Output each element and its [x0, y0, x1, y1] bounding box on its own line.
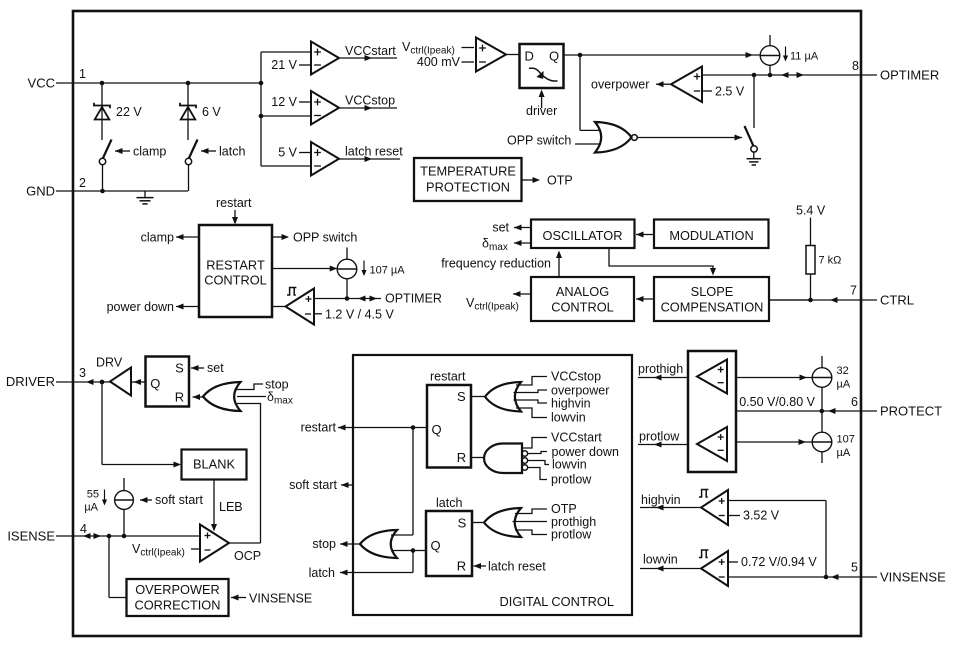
svg-text:highvin: highvin [641, 493, 681, 507]
svg-text:Q: Q [549, 49, 559, 64]
svg-text:S: S [458, 516, 467, 531]
svg-text:OPTIMER: OPTIMER [385, 292, 442, 306]
svg-text:4: 4 [80, 522, 87, 536]
svg-text:11 µA: 11 µA [790, 51, 819, 63]
svg-text:protlow: protlow [551, 473, 592, 487]
svg-text:S: S [175, 361, 184, 376]
svg-text:VCC: VCC [28, 76, 55, 91]
svg-text:soft start: soft start [289, 478, 337, 492]
svg-text:55: 55 [87, 489, 99, 501]
svg-text:Q: Q [430, 538, 440, 553]
svg-text:21 V: 21 V [271, 58, 297, 72]
svg-text:CTRL: CTRL [880, 293, 914, 308]
svg-text:MODULATION: MODULATION [669, 228, 753, 243]
svg-text:0.50 V/0.80 V: 0.50 V/0.80 V [739, 395, 815, 409]
svg-text:12 V: 12 V [271, 95, 297, 109]
svg-text:restart: restart [430, 370, 466, 384]
svg-text:1.2 V / 4.5 V: 1.2 V / 4.5 V [325, 308, 394, 322]
svg-text:5 V: 5 V [278, 146, 297, 160]
svg-text:7 kΩ: 7 kΩ [819, 255, 842, 267]
svg-text:22 V: 22 V [116, 105, 142, 119]
svg-text:BLANK: BLANK [193, 457, 235, 472]
svg-text:R: R [457, 450, 466, 465]
svg-text:ISENSE: ISENSE [7, 529, 55, 544]
svg-text:400 mV: 400 mV [417, 55, 461, 69]
svg-text:PROTECT: PROTECT [880, 404, 942, 419]
svg-text:µA: µA [84, 502, 98, 514]
svg-text:GND: GND [26, 184, 55, 199]
svg-text:LEB: LEB [219, 500, 243, 514]
svg-text:6 V: 6 V [202, 105, 221, 119]
svg-text:clamp: clamp [141, 231, 174, 245]
svg-text:PROTECTION: PROTECTION [426, 180, 510, 195]
svg-text:stop: stop [312, 537, 336, 551]
svg-text:µA: µA [837, 379, 851, 391]
svg-text:power down: power down [107, 300, 174, 314]
svg-text:set: set [492, 221, 509, 235]
svg-text:Vctrl(Ipeak): Vctrl(Ipeak) [466, 296, 519, 313]
svg-text:highvin: highvin [551, 397, 591, 411]
svg-text:frequency reduction: frequency reduction [441, 257, 551, 271]
svg-text:7: 7 [850, 284, 857, 298]
svg-text:SLOPE: SLOPE [691, 284, 734, 299]
svg-text:2: 2 [79, 176, 86, 190]
svg-text:OPP switch: OPP switch [293, 231, 357, 245]
svg-text:0.72 V/0.94 V: 0.72 V/0.94 V [741, 555, 817, 569]
svg-text:107 µA: 107 µA [370, 265, 406, 277]
svg-text:CONTROL: CONTROL [551, 300, 614, 315]
svg-text:lowvin: lowvin [551, 411, 586, 425]
svg-text:3: 3 [79, 366, 86, 380]
svg-text:R: R [175, 390, 184, 405]
svg-text:latch: latch [219, 145, 245, 159]
svg-text:VCCstart: VCCstart [345, 44, 396, 58]
svg-text:TEMPERATURE: TEMPERATURE [420, 164, 516, 179]
svg-text:OCP: OCP [234, 549, 261, 563]
svg-text:VCCstop: VCCstop [345, 94, 395, 108]
svg-text:RESTART: RESTART [206, 258, 265, 273]
svg-text:OPP switch: OPP switch [507, 134, 571, 148]
svg-text:D: D [525, 49, 534, 64]
svg-text:CORRECTION: CORRECTION [134, 598, 220, 613]
svg-text:6: 6 [851, 395, 858, 409]
svg-text:DRV: DRV [96, 356, 123, 370]
svg-text:ANALOG: ANALOG [556, 284, 609, 299]
svg-text:OVERPOWER: OVERPOWER [135, 582, 220, 597]
svg-text:OTP: OTP [547, 174, 573, 188]
svg-text:DIGITAL CONTROL: DIGITAL CONTROL [500, 594, 614, 609]
svg-text:107: 107 [837, 434, 855, 446]
svg-text:VCCstart: VCCstart [551, 431, 602, 445]
svg-text:lowvin: lowvin [643, 553, 678, 567]
svg-text:protlow: protlow [639, 430, 680, 444]
svg-text:Q: Q [150, 376, 160, 391]
svg-text:protlow: protlow [551, 528, 592, 542]
svg-text:COMPENSATION: COMPENSATION [661, 300, 764, 315]
svg-text:2.5 V: 2.5 V [715, 85, 745, 99]
svg-text:overpower: overpower [551, 384, 609, 398]
svg-text:prothigh: prothigh [638, 362, 683, 376]
svg-text:restart: restart [216, 196, 252, 210]
svg-text:latch: latch [309, 566, 335, 580]
svg-text:5: 5 [851, 561, 858, 575]
svg-text:δmax: δmax [267, 390, 293, 407]
svg-text:Q: Q [431, 422, 441, 437]
svg-text:clamp: clamp [133, 145, 166, 159]
svg-text:VCCstop: VCCstop [551, 370, 601, 384]
svg-text:δmax: δmax [482, 237, 508, 254]
svg-text:3.52 V: 3.52 V [743, 509, 780, 523]
svg-text:1: 1 [79, 67, 86, 81]
svg-text:overpower: overpower [591, 78, 649, 92]
svg-text:CONTROL: CONTROL [204, 273, 267, 288]
svg-text:S: S [457, 389, 466, 404]
svg-text:µA: µA [837, 447, 851, 459]
svg-text:Vctrl(Ipeak): Vctrl(Ipeak) [132, 542, 185, 559]
svg-text:OTP: OTP [551, 502, 577, 516]
svg-text:5.4 V: 5.4 V [796, 204, 826, 218]
svg-text:latch: latch [436, 496, 462, 510]
svg-text:set: set [207, 361, 224, 375]
svg-text:lowvin: lowvin [552, 458, 587, 472]
svg-text:8: 8 [852, 59, 859, 73]
svg-text:latch reset: latch reset [345, 145, 403, 159]
svg-text:VINSENSE: VINSENSE [880, 570, 946, 585]
svg-text:restart: restart [301, 421, 337, 435]
svg-text:driver: driver [526, 104, 557, 118]
svg-text:OPTIMER: OPTIMER [880, 68, 939, 83]
svg-text:DRIVER: DRIVER [6, 374, 55, 389]
svg-text:VINSENSE: VINSENSE [249, 592, 312, 606]
svg-text:soft start: soft start [155, 493, 203, 507]
svg-text:R: R [457, 559, 466, 574]
svg-text:latch reset: latch reset [488, 560, 546, 574]
svg-text:OSCILLATOR: OSCILLATOR [543, 228, 623, 243]
svg-text:32: 32 [837, 365, 849, 377]
